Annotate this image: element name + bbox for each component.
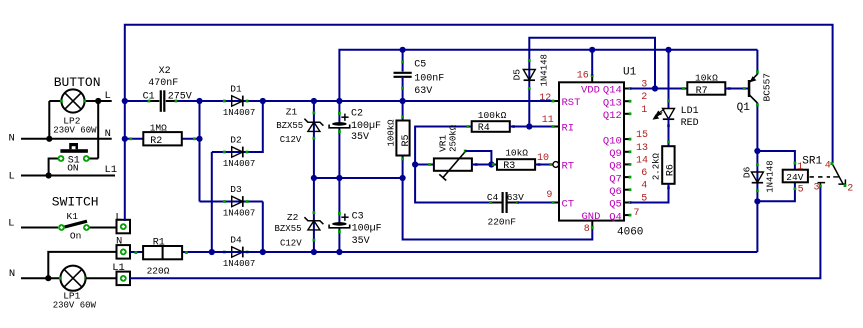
svg-text:1: 1 [797, 162, 803, 173]
svg-text:RST: RST [562, 97, 581, 109]
svg-text:Q10: Q10 [603, 135, 622, 147]
wire D1 row [200, 100, 263, 102]
wire D3 cathode down to bottom rail [262, 202, 264, 253]
terminal L [117, 220, 131, 234]
svg-text:C12V: C12V [280, 135, 302, 145]
svg-text:Q14: Q14 [603, 85, 622, 97]
svg-text:R6: R6 [665, 164, 676, 176]
wire Q14 pin3 to R7 [630, 88, 687, 90]
node D1 cathode junction [260, 98, 266, 104]
svg-text:10kΩ: 10kΩ [505, 148, 528, 159]
svg-text:L: L [8, 218, 14, 230]
svg-text:D1: D1 [230, 84, 242, 95]
svg-text:35V: 35V [351, 132, 369, 143]
svg-text:VR1: VR1 [437, 134, 448, 151]
resistor R7 [687, 82, 725, 95]
svg-text:RED: RED [681, 118, 699, 129]
svg-text:Q8: Q8 [609, 161, 622, 173]
node C3 bottom [336, 249, 342, 255]
wire R7 to Q1 base [725, 88, 748, 90]
pin RI stub [553, 126, 559, 128]
svg-text:63V: 63V [507, 192, 524, 203]
svg-text:BZX55: BZX55 [275, 224, 302, 234]
svg-text:220nF: 220nF [488, 217, 517, 228]
svg-text:R3: R3 [503, 161, 515, 172]
node D5-link junction on Q14 wire [652, 85, 658, 91]
svg-text:ON: ON [67, 162, 78, 173]
pin 8 GND stub [591, 221, 593, 228]
svg-text:8: 8 [584, 224, 590, 235]
svg-text:1N4007: 1N4007 [223, 159, 255, 169]
svg-text:D3: D3 [230, 184, 242, 195]
wire R4/VR1/C4 left vertical [415, 127, 490, 203]
wire LED branch from VDD rail [668, 50, 670, 108]
svg-text:2.2kΩ: 2.2kΩ [651, 152, 661, 180]
wire L left [21, 175, 115, 177]
svg-text:100nF: 100nF [414, 74, 444, 85]
svg-text:L: L [105, 90, 111, 102]
capacitor C1 [149, 100, 159, 102]
wire N left [21, 138, 112, 140]
resistor R6 vertical [662, 146, 674, 184]
terminal N [117, 245, 131, 259]
svg-text:BUTTON: BUTTON [54, 75, 101, 90]
node R5 bottom on mid rail [400, 175, 406, 181]
wire N riser to terminal N [48, 252, 116, 278]
svg-text:14: 14 [636, 155, 648, 166]
svg-text:100kΩ: 100kΩ [387, 119, 397, 147]
svg-text:1N4007: 1N4007 [223, 259, 255, 269]
svg-text:230V 60W: 230V 60W [53, 301, 97, 311]
diode D1 [232, 96, 243, 106]
pin Q12 stub [624, 113, 630, 115]
wire bus2 vertical [199, 101, 201, 202]
LED LD1 [663, 109, 675, 120]
svg-text:4: 4 [825, 161, 831, 172]
node C5 bottom / R5 top on row101 [400, 98, 406, 104]
svg-text:BZX55: BZX55 [276, 121, 303, 131]
svg-text:GND: GND [582, 211, 601, 223]
wire LP2 left lead riser [48, 101, 50, 139]
svg-text:10kΩ: 10kΩ [695, 73, 718, 84]
relay contact SR1: pin4 blade pin2 pin3 [833, 164, 844, 184]
svg-text:1: 1 [641, 105, 647, 116]
node bus2 row101 [196, 98, 202, 104]
svg-text:R5: R5 [401, 134, 412, 146]
pin Q4 stub [624, 214, 630, 216]
pin Q14 stub [624, 88, 630, 90]
svg-text:4060: 4060 [617, 227, 643, 239]
wire N bottom left [21, 277, 60, 279]
node D2 anode bottom [209, 249, 215, 255]
wire VR1 wiper to R3 [465, 151, 491, 165]
svg-text:R2: R2 [150, 136, 162, 147]
svg-text:Z2: Z2 [287, 212, 299, 223]
node D4 cathode bottom [260, 249, 266, 255]
svg-text:Q1: Q1 [737, 102, 751, 114]
svg-text:15: 15 [636, 130, 648, 141]
wire coil pin 5 [757, 182, 795, 201]
svg-text:BC557: BC557 [762, 73, 773, 102]
svg-text:L: L [115, 212, 121, 224]
svg-text:D5: D5 [511, 69, 522, 81]
pin Q5 stub [624, 202, 630, 204]
wire D5 vertical and top link to Q14 [529, 38, 655, 127]
pin Q7 stub [624, 176, 630, 178]
zener Z2 vertical [313, 178, 315, 252]
svg-text:K1: K1 [67, 211, 79, 222]
node Z1 top [311, 98, 317, 104]
relay actuator dashed link [810, 176, 831, 178]
svg-text:R1: R1 [153, 238, 165, 249]
node N junction at LP1 [45, 275, 51, 281]
node relay coil pin1 branch [754, 148, 760, 154]
svg-text:D6: D6 [742, 166, 753, 178]
svg-text:11: 11 [542, 115, 554, 126]
svg-text:RT: RT [562, 161, 575, 173]
wire coil pin 1 [757, 151, 795, 170]
svg-text:SWITCH: SWITCH [52, 194, 99, 209]
svg-text:C1: C1 [143, 91, 155, 102]
wire R4 right to RI pin [510, 126, 553, 128]
wire L1 long run from terminal L1 to relay contact pin 3 [130, 186, 820, 278]
resistor R1 [143, 246, 182, 259]
capacitor C4 [491, 202, 502, 204]
svg-text:12: 12 [539, 93, 551, 104]
wire C4 right to CT pin [518, 202, 554, 204]
svg-text:230V 60W: 230V 60W [53, 125, 97, 135]
pushbutton S1 [60, 149, 88, 153]
svg-text:Q13: Q13 [603, 97, 622, 109]
svg-text:220Ω: 220Ω [147, 266, 170, 277]
node LED top on VDD rail [665, 47, 671, 53]
svg-text:C2: C2 [351, 109, 363, 120]
node C2 top [336, 98, 342, 104]
svg-text:C4: C4 [487, 192, 499, 203]
wire K1 to terminal L [90, 227, 117, 229]
svg-text:275V: 275V [168, 91, 192, 102]
diode D2 [232, 147, 243, 157]
svg-text:C12V: C12V [280, 239, 302, 249]
svg-text:Q6: Q6 [609, 186, 622, 198]
wire row101 C1 to bus2 [176, 100, 200, 102]
svg-text:100µF: 100µF [351, 121, 381, 132]
diode D5 [523, 70, 535, 81]
svg-text:1MΩ: 1MΩ [150, 123, 167, 134]
wire Q1 collector down, D6/relay branch, to bottom rail [756, 103, 758, 252]
node C2/C3 mid [336, 175, 342, 181]
wire D3 row [200, 201, 263, 203]
transistor Q1 BC557 [748, 80, 751, 97]
wire VDD rail from C2 top [339, 50, 757, 101]
diode D3 [232, 196, 243, 206]
svg-text:1N4007: 1N4007 [223, 108, 255, 118]
svg-text:R7: R7 [696, 86, 708, 97]
svg-text:N: N [116, 236, 122, 248]
svg-text:VDD: VDD [581, 85, 600, 97]
pin Q8 stub [624, 163, 630, 165]
pin Q9 stub [624, 151, 630, 153]
relay SR1 coil [783, 170, 808, 183]
node bus1 row101 [122, 98, 128, 104]
svg-text:10: 10 [537, 153, 549, 164]
wire S1 left riser [49, 159, 58, 176]
svg-text:CT: CT [562, 199, 575, 211]
wire R6 to Q5 pin [630, 184, 669, 203]
resistor R5 vertical [402, 101, 404, 178]
pin RT stub with clock bubble [551, 164, 554, 166]
svg-text:D4: D4 [230, 235, 242, 246]
svg-text:RI: RI [562, 123, 575, 135]
node C5 top on VDD rail [400, 47, 406, 53]
svg-text:3: 3 [814, 182, 820, 193]
capacitor C3 electrolytic [338, 178, 340, 223]
wire live bus left, top rail, right drop to relay contact pin 4 [125, 25, 833, 221]
svg-text:C3: C3 [352, 212, 364, 223]
wire row101 bus1 to C1 [125, 100, 149, 102]
svg-text:Z1: Z1 [286, 107, 298, 118]
svg-text:2: 2 [641, 92, 647, 103]
wire R3 to RT pin bubble [535, 164, 550, 166]
wire R2 row [125, 138, 200, 140]
terminal L1 [117, 272, 131, 286]
svg-text:Q9: Q9 [609, 148, 622, 160]
node bus1 row139 [122, 136, 128, 142]
wire GND link from mid rail to IC pin 8 [403, 178, 593, 240]
pin 16 VDD stub [591, 76, 593, 83]
svg-text:LD1: LD1 [681, 106, 699, 117]
switch K1 [65, 221, 87, 227]
svg-text:7: 7 [634, 208, 640, 219]
resistor R3 [497, 159, 535, 170]
pin Q10 stub [624, 138, 630, 140]
svg-text:6: 6 [641, 168, 647, 179]
svg-text:N: N [9, 133, 15, 145]
wire LP1 to terminal L1 [86, 277, 117, 279]
svg-text:24V: 24V [786, 172, 803, 183]
node R3 left junction [488, 161, 494, 167]
svg-text:5: 5 [798, 185, 804, 196]
svg-text:R4: R4 [478, 123, 490, 134]
pin CT stub [553, 202, 559, 204]
node D5 bottom junction on RI wire [526, 123, 532, 129]
svg-text:Q4: Q4 [609, 211, 622, 223]
wire K1 left [21, 227, 58, 229]
wire VR1 left lead [415, 164, 434, 166]
node Z2 bottom [311, 249, 317, 255]
node L junction below S1 [46, 172, 52, 178]
pin Q13 stub [624, 100, 630, 102]
svg-text:Q5: Q5 [609, 199, 622, 211]
diode D4 [232, 247, 243, 257]
capacitor C2 electrolytic [338, 101, 340, 123]
svg-text:Q7: Q7 [609, 173, 622, 185]
diode D6 [751, 172, 763, 183]
node VR1 left junction [412, 161, 418, 167]
wire row101 D1 junction to RST pin [263, 100, 553, 102]
svg-text:9: 9 [546, 190, 552, 201]
node relay coil pin5 branch [754, 198, 760, 204]
svg-text:D2: D2 [230, 135, 242, 146]
potentiometer VR1 [434, 158, 472, 170]
wire S1 right short [90, 158, 99, 160]
wire LP2 row to dead end L [49, 100, 111, 102]
svg-text:L: L [9, 171, 15, 183]
wire D2 anode drop to bottom rail [211, 152, 213, 252]
svg-text:1N4148: 1N4148 [766, 160, 776, 192]
svg-text:470nF: 470nF [148, 78, 178, 89]
lamp LP2 [61, 89, 84, 112]
svg-text:U1: U1 [623, 67, 637, 79]
svg-text:16: 16 [577, 71, 589, 82]
pin Q6 stub [624, 189, 630, 191]
svg-text:4: 4 [641, 181, 647, 192]
svg-text:250kΩ: 250kΩ [448, 124, 458, 152]
svg-text:13: 13 [636, 143, 648, 154]
svg-text:L1: L1 [112, 262, 125, 274]
svg-text:35V: 35V [352, 236, 370, 247]
wire LED to R6 [668, 118, 670, 146]
svg-text:N: N [9, 268, 15, 280]
svg-text:X2: X2 [159, 66, 171, 77]
wire D1 cathode down to D2 [212, 101, 263, 152]
wire mid rail [314, 177, 403, 179]
pin RST stub [553, 100, 559, 102]
node Z1/Z2 mid [311, 175, 317, 181]
svg-text:2: 2 [847, 184, 853, 195]
resistor R4 [472, 121, 510, 132]
svg-text:1N4148: 1N4148 [540, 54, 550, 86]
wire VR1 right lead to R3 junction [472, 164, 497, 166]
node bus2 row139 [196, 136, 202, 142]
svg-text:On: On [70, 230, 81, 241]
node L junction right of LP2 [95, 98, 101, 104]
svg-text:C5: C5 [414, 60, 426, 71]
svg-text:SR1: SR1 [802, 156, 822, 168]
svg-text:Q12: Q12 [603, 110, 622, 122]
svg-text:100kΩ: 100kΩ [478, 110, 507, 121]
lamp LP1 [60, 266, 85, 291]
node VDD rail pin16 [589, 47, 595, 53]
IC U1 4060 body [559, 82, 624, 220]
wire bottom rail [130, 251, 757, 253]
zener Z1 vertical [313, 101, 315, 178]
resistor R2 [143, 132, 182, 145]
svg-text:100µF: 100µF [352, 223, 382, 234]
svg-text:1N4007: 1N4007 [223, 209, 255, 219]
capacitor C5 [402, 50, 404, 72]
wire S1 right riser [97, 101, 99, 159]
svg-text:L1: L1 [105, 164, 118, 176]
wire Q1 emitter to VDD rail [756, 50, 758, 75]
svg-text:63V: 63V [414, 86, 432, 97]
svg-text:N: N [105, 128, 111, 140]
node N junction at lamp LP2 branch [46, 136, 52, 142]
